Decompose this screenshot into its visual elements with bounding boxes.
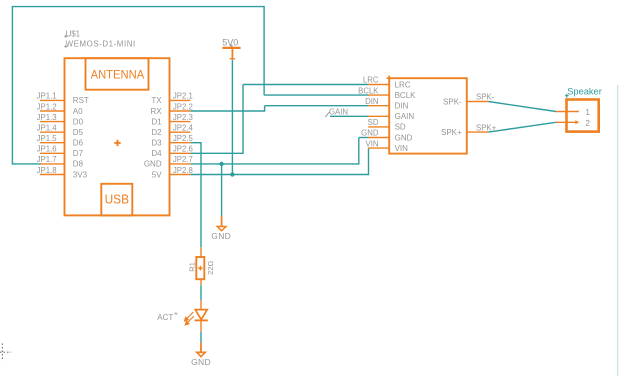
svg-text:RST: RST <box>73 96 89 105</box>
svg-text:JP1.5: JP1.5 <box>37 134 58 143</box>
svg-text:WEMOS-D1-MINI: WEMOS-D1-MINI <box>66 39 136 48</box>
wire faint cut-off at right edge <box>617 85 619 376</box>
wemos left pad labels JP1.x <box>37 92 58 175</box>
svg-text:GAIN: GAIN <box>329 108 348 117</box>
wire net GND: from JP2.7 <box>190 163 358 165</box>
wemos name origin cross <box>64 35 67 38</box>
svg-text:3V3: 3V3 <box>73 170 88 179</box>
svg-text:Speaker: Speaker <box>567 86 602 96</box>
wire net DIN: into DIN stub <box>265 105 369 107</box>
svg-text:SPK+: SPK+ <box>441 128 462 137</box>
wire net LRC: into LRC stub <box>243 84 369 86</box>
svg-text:BCLK: BCLK <box>358 86 379 95</box>
wire net DIN: from JP2.2 (RX) <box>190 110 264 112</box>
svg-text:GND: GND <box>211 231 231 241</box>
svg-text:LRC: LRC <box>395 80 411 89</box>
svg-text:GND: GND <box>144 160 162 169</box>
wire net BCLK: into BCLK stub <box>264 94 369 96</box>
wire net SPK+ diagonal <box>488 122 556 132</box>
svg-text:U$1: U$1 <box>66 29 80 38</box>
svg-text:D5: D5 <box>73 128 84 137</box>
speaker connector outline <box>567 100 599 132</box>
svg-text:JP2.3: JP2.3 <box>173 113 193 122</box>
wemos right pin stubs JP2.1-JP2.8 <box>170 100 191 174</box>
svg-text:JP1.7: JP1.7 <box>37 155 57 164</box>
svg-text:SD: SD <box>368 118 379 127</box>
svg-text:D4: D4 <box>151 149 162 158</box>
wire segment LED to ground <box>200 332 202 343</box>
amp origin cross <box>387 76 392 81</box>
wemos origin cross <box>114 140 120 146</box>
svg-text:JP2.2: JP2.2 <box>173 102 193 111</box>
wire net BCLK: top horizontal run <box>12 6 264 8</box>
resistor R1 <box>196 247 204 285</box>
op-amp U1 I2S amplifier outline <box>389 78 467 153</box>
junction dot 5V at JP2.8 <box>230 172 234 176</box>
net label GAIN flag tick <box>325 112 329 117</box>
amp right pin stubs SPK-/SPK+ <box>467 102 489 133</box>
svg-text:D7: D7 <box>73 149 84 158</box>
speaker origin cross <box>565 94 569 98</box>
wire net BCLK: left vertical riser <box>11 7 13 165</box>
wire net 5V: from 5V0 supply down <box>231 60 233 175</box>
svg-text:JP1.2: JP1.2 <box>37 102 57 111</box>
svg-text:D3: D3 <box>151 139 162 148</box>
svg-text:JP1.4: JP1.4 <box>37 124 58 133</box>
ground symbol GND (lower) <box>191 343 211 368</box>
svg-text:D1: D1 <box>151 117 162 126</box>
wemos value origin cross <box>64 45 67 48</box>
wire net BCLK from D8: JP1.7 left segment <box>12 163 41 165</box>
wire net 5V: riser to amp VIN <box>368 148 370 175</box>
wemos right pad labels JP2.x <box>173 92 194 175</box>
svg-text:D8: D8 <box>73 160 84 169</box>
svg-text:DIN: DIN <box>395 102 409 111</box>
svg-text:SPK+: SPK+ <box>476 123 497 132</box>
wire net DIN: half-grid jog up <box>264 106 266 112</box>
wire segment R1 to LED <box>200 285 202 300</box>
wemos left pin names <box>73 96 89 179</box>
LED ACT* <box>195 300 208 331</box>
svg-text:JP1.6: JP1.6 <box>37 145 57 154</box>
wemos U$1 main outline <box>65 58 170 215</box>
svg-text:GND: GND <box>395 133 413 142</box>
svg-text:SPK-: SPK- <box>443 97 462 106</box>
svg-text:VIN: VIN <box>366 139 379 148</box>
svg-text:GND: GND <box>361 129 379 138</box>
wire net LRC: from JP2.6 (D4) <box>190 152 243 154</box>
svg-text:TX: TX <box>151 96 162 105</box>
svg-text:SD: SD <box>395 123 406 132</box>
svg-text:D6: D6 <box>73 139 84 148</box>
wire net GND: into GND stub <box>359 137 369 139</box>
wire net 5V: from JP2.8 <box>190 174 368 176</box>
wemos antenna box <box>86 58 149 89</box>
svg-text:RX: RX <box>150 107 162 116</box>
svg-text:DIN: DIN <box>365 97 378 106</box>
svg-text:R1: R1 <box>187 262 196 272</box>
svg-text:GAIN: GAIN <box>395 112 415 121</box>
svg-text:D2: D2 <box>151 128 162 137</box>
wire net GAIN stub wire <box>330 115 369 117</box>
wire net ACT: drop to R1 <box>200 142 202 247</box>
svg-text:22Ω: 22Ω <box>206 261 215 275</box>
speaker pin 1 <box>556 111 579 113</box>
supply symbol 5V0 <box>222 38 240 59</box>
svg-text:JP1.3: JP1.3 <box>37 113 57 122</box>
wire net GND: drop to ground symbol <box>221 164 223 216</box>
ground symbol GND (upper) <box>211 216 231 241</box>
wemos right pin names <box>144 96 162 179</box>
svg-text:1: 1 <box>585 108 590 117</box>
svg-text:BCLK: BCLK <box>395 91 417 100</box>
svg-text:2: 2 <box>585 119 590 128</box>
svg-text:JP2.1: JP2.1 <box>173 92 193 101</box>
wemos left pin stubs JP1.1-JP1.8 <box>40 100 65 174</box>
LED emission arrows <box>185 312 194 325</box>
svg-text:JP1.1: JP1.1 <box>37 92 57 101</box>
svg-text:JP2.8: JP2.8 <box>173 166 193 175</box>
svg-text:JP2.7: JP2.7 <box>173 155 193 164</box>
amp left pin stubs <box>368 85 389 149</box>
wire net BCLK: drop to amp BCLK pin <box>263 6 265 95</box>
svg-text:JP2.6: JP2.6 <box>173 145 193 154</box>
svg-text:ANTENNA: ANTENNA <box>91 67 145 81</box>
svg-text:VIN: VIN <box>395 144 409 153</box>
svg-text:JP1.8: JP1.8 <box>37 166 57 175</box>
speaker pin 2 with arrowhead <box>556 120 579 124</box>
wire net LRC: riser <box>242 85 244 155</box>
svg-text:USB: USB <box>105 192 129 207</box>
svg-text:A0: A0 <box>73 107 83 116</box>
frame origin dashed cross <box>0 343 11 361</box>
wire net SPK- diagonal <box>488 102 556 112</box>
svg-text:JP2.5: JP2.5 <box>173 134 194 143</box>
svg-text:5V: 5V <box>152 170 162 179</box>
svg-text:SPK-: SPK- <box>476 93 495 102</box>
svg-text:ACT: ACT <box>157 313 173 322</box>
wire net ACT: from JP2.5 (D3) <box>190 142 201 144</box>
wire net GND: riser to amp GND <box>358 138 360 165</box>
amp right pin names inside <box>441 97 462 137</box>
svg-text:GND: GND <box>191 357 211 367</box>
svg-text:LRC: LRC <box>363 76 379 85</box>
svg-text:JP2.4: JP2.4 <box>173 124 194 133</box>
wemos usb box <box>101 184 132 216</box>
svg-text:D0: D0 <box>73 117 84 126</box>
junction dot GND at JP2.7 <box>219 162 223 166</box>
amp pin names inside <box>395 80 417 153</box>
